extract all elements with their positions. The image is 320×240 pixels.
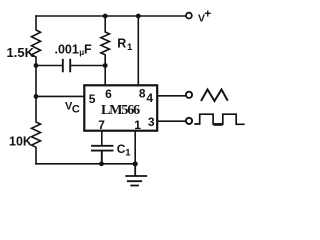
svg-text:10K: 10K [9,135,32,149]
icon square wave [194,114,244,124]
junction dot divider top node [34,63,39,68]
wire V+ top rail [36,15,186,17]
ground [126,164,146,186]
svg-text:.001: .001 [55,43,79,57]
svg-text:3: 3 [148,115,155,129]
wire VC node to pin 5 [36,95,84,97]
svg-text:5: 5 [89,92,96,106]
wire pin 8 [137,16,139,84]
IC U1 LM566 box [84,85,157,130]
resistor 10K [32,96,41,163]
label R1 [117,36,133,53]
junction dot ground node [133,161,138,166]
resistor 1.5K [32,16,41,66]
wire bottom rail [36,163,135,165]
junction dot pin6 node [103,63,108,68]
svg-text:+: + [204,6,211,20]
junction dot top rail at pin 8 [136,14,141,19]
svg-text:1: 1 [125,148,131,159]
svg-text:4: 4 [146,91,153,105]
capacitor C1 [92,146,113,164]
junction dot VC node [34,94,39,99]
wire pin 1 [134,132,136,164]
svg-text:1: 1 [127,42,133,53]
resistor R1 [101,16,110,66]
terminal V+ [186,13,192,19]
label VC [65,100,80,115]
svg-text:6: 6 [105,87,112,101]
svg-text:8: 8 [139,86,146,100]
terminal triangle output [186,92,192,98]
junction dot top rail at R1 [103,14,108,19]
icon triangle wave [201,90,228,102]
svg-text:1.5K: 1.5K [7,45,35,60]
wire pin 3 output [158,120,185,122]
terminal square output [186,118,192,124]
wire left rail mid [35,66,37,97]
junction dot C1 bottom [99,161,104,166]
svg-text:7: 7 [98,118,105,132]
label C1 [117,142,132,158]
label .001uF [55,43,93,57]
wire .001uF cap to pin6 node [71,65,105,67]
svg-text:1: 1 [134,118,141,132]
svg-text:LM566: LM566 [101,103,140,118]
svg-text:C: C [72,104,80,116]
wire pin 7 [101,132,103,145]
label V+ [198,6,211,24]
wire pin 4 output [158,95,185,97]
capacitor .001uF plates [63,60,70,72]
svg-text:R: R [117,36,126,50]
wire pin 6 [104,66,106,85]
wire node to .001uF cap [36,65,62,67]
svg-text:F: F [84,43,92,57]
